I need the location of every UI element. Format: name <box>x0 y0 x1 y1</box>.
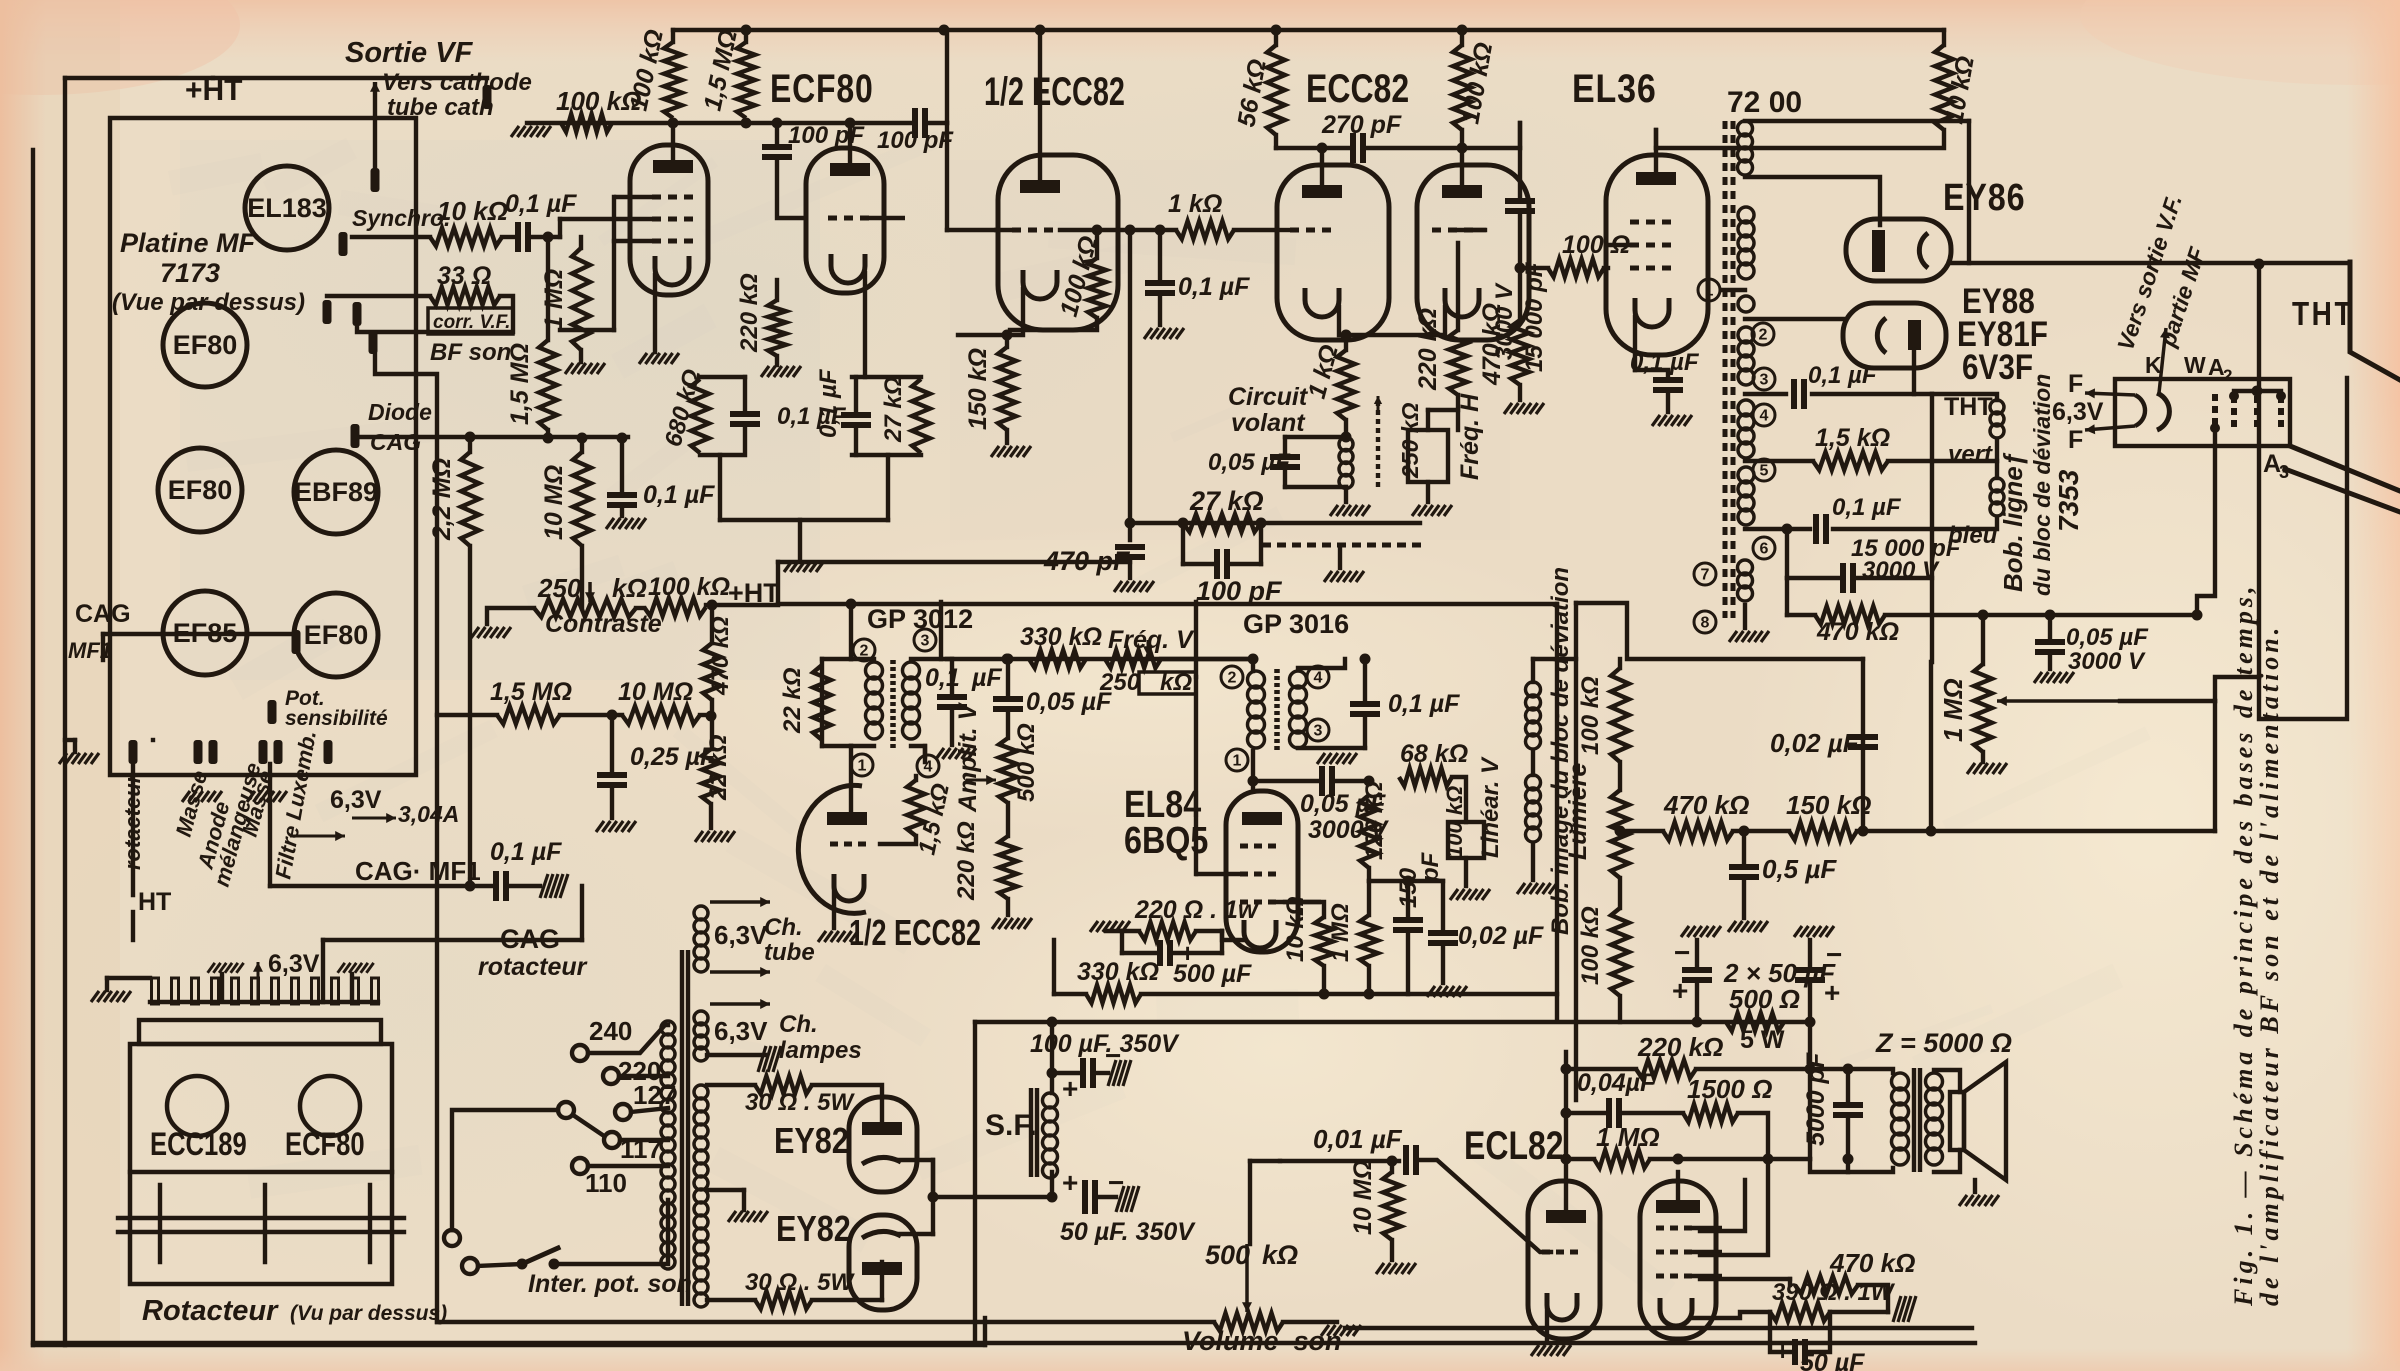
ground 0,5 uF <box>1728 921 1768 932</box>
resistor 1 MOhm pot <box>1974 664 1992 752</box>
wire shield gnd <box>1338 545 1342 568</box>
tube EF80 (top view) <box>163 303 247 387</box>
label Ch tube b <box>764 939 815 966</box>
label F top <box>2068 370 2083 398</box>
wire row715 right <box>700 713 711 717</box>
svg-text:Z = 5000 Ω: Z = 5000 Ω <box>1875 1028 2012 1058</box>
label 390 Ohm 1W <box>1772 1279 1896 1306</box>
wire 470k stub <box>1518 268 1522 320</box>
wire 025 stub <box>610 715 614 770</box>
wire yoke mid <box>1932 441 1997 461</box>
label 220 Ohm 1W <box>1134 896 1259 924</box>
wire el84 rail b <box>1141 992 1430 996</box>
tube ECL82 pentode envelope <box>1640 1181 1716 1339</box>
electrode W crt <box>2212 394 2218 428</box>
wire 220k bot <box>775 356 779 365</box>
resistor 1,5 MOhm anode <box>737 42 755 118</box>
terminal 110 <box>572 1158 588 1174</box>
resistor 100 kOhm anode <box>664 42 682 118</box>
capacitor 0,05 uF 3000V <box>2035 642 2065 652</box>
resistor 220 Ohm 1W <box>1139 922 1196 940</box>
junction +HT mid <box>707 600 718 611</box>
tap 7 <box>1694 563 1716 585</box>
box rotacteur <box>130 1044 392 1284</box>
wire 865-447 <box>886 455 890 520</box>
wire 1MOhm bot <box>579 350 583 362</box>
junction 0,1uF grid <box>1155 225 1166 236</box>
wire otr prim bot <box>1810 1159 1893 1172</box>
junction 0,05 3000 <box>2045 610 2056 621</box>
wire 0,1uF grid bot <box>1158 298 1162 325</box>
ground rot left <box>208 963 244 973</box>
wire +HT rail <box>712 603 778 607</box>
wire 0,05 stub <box>2048 615 2052 637</box>
label Lumiere <box>1564 763 1592 860</box>
svg-text:250 kΩ: 250 kΩ <box>1397 402 1423 479</box>
wire ecl pent cath <box>1691 1310 1693 1318</box>
label 2,2 MOhm <box>428 458 456 541</box>
wire row715 left <box>437 713 497 717</box>
svg-text:10 kΩ: 10 kΩ <box>437 196 508 226</box>
wire y659 cont <box>946 580 948 659</box>
label Contraste <box>545 610 662 638</box>
wire gp3016 right border <box>1555 604 1559 1021</box>
resistor 680 kOhm <box>691 379 709 453</box>
pin rotacteur 5 <box>232 978 239 1004</box>
svg-text:6,3V: 6,3V <box>330 786 382 814</box>
resistor 100 kOhm ecc82 <box>1453 45 1471 130</box>
junction 470/22 <box>706 711 717 722</box>
label 1/2 ECC82 <box>984 69 1125 114</box>
label CAG small <box>370 429 421 455</box>
grid EL84 g2 <box>1240 844 1276 849</box>
wire 470k stub top <box>710 605 714 643</box>
winding THT secondary s5 <box>1738 467 1754 525</box>
wire synchro <box>352 235 430 239</box>
svg-text:470 kΩ: 470 kΩ <box>707 616 734 696</box>
wire 100pF fb r <box>1227 562 1261 566</box>
wire el84 rail right <box>1430 992 1557 996</box>
svg-text:2,2 MΩ: 2,2 MΩ <box>428 458 456 541</box>
label 330 kOhm el84 <box>1077 958 1159 986</box>
svg-text:0,1 µF: 0,1 µF <box>1178 273 1250 301</box>
wire gp3016 sec top <box>1298 659 1345 668</box>
wire 2x50a bot <box>1695 985 1699 1022</box>
junction g1 ecl <box>1673 1154 1684 1165</box>
label Amplit V <box>954 701 982 813</box>
wire 100k to HT <box>706 603 713 607</box>
socket shelf rotacteur <box>139 1020 381 1044</box>
svg-text:250: 250 <box>537 573 582 603</box>
wire audio long <box>1250 1159 1280 1163</box>
ground THT tertiary <box>1729 631 1769 642</box>
wire gp3012 672 <box>849 602 853 659</box>
wire cath join <box>720 518 888 522</box>
junction bus 100k ecc82 <box>1457 25 1468 36</box>
wire B+ rail <box>975 1020 1810 1024</box>
label volant <box>1231 409 1306 437</box>
hatch cag mf1 <box>540 874 568 898</box>
svg-text:−: − <box>1674 937 1690 968</box>
crt gun base box <box>2115 379 2290 446</box>
wire el36 cap bot <box>1666 395 1670 412</box>
box 500uF b <box>1220 931 1224 953</box>
pin rotacteur 10 <box>332 978 339 1004</box>
wire 10M top <box>580 437 584 452</box>
anode ECL82 triode <box>1546 1210 1586 1223</box>
wire corr vf left <box>327 294 430 298</box>
wire 500uF l <box>1122 951 1160 955</box>
svg-text:ECF80: ECF80 <box>285 1127 365 1162</box>
junction gp3016 feed <box>1248 654 1259 665</box>
junction B+ SF <box>1047 1017 1058 1028</box>
wire 390 r <box>1830 1310 1888 1314</box>
svg-text:3: 3 <box>1314 723 1323 740</box>
wire cath join down <box>798 520 802 560</box>
wire HT to box <box>131 912 135 940</box>
wire tap4 stub <box>923 746 927 756</box>
svg-text:+: + <box>1062 1167 1078 1198</box>
pin rotacteur 3 <box>192 978 199 1004</box>
terminal 127 <box>615 1104 631 1120</box>
svg-text:0,02 µF: 0,02 µF <box>1458 922 1544 950</box>
winding THT secondary s2 <box>1738 296 1754 312</box>
anode ECC82 A <box>1302 185 1342 198</box>
terminal corr VF b <box>353 302 362 326</box>
label CAG rot <box>500 924 560 954</box>
wire anode lead triode <box>848 123 852 163</box>
svg-text:1 MΩ: 1 MΩ <box>1596 1122 1660 1152</box>
tap 5 <box>1753 459 1775 481</box>
svg-text:0,04µF: 0,04µF <box>1577 1069 1656 1097</box>
svg-text:3: 3 <box>921 633 930 650</box>
label 30 Ohm 5W b <box>745 1269 855 1296</box>
winding THT secondary s3 <box>1738 327 1754 385</box>
wire vol wiper up <box>1248 1161 1252 1244</box>
tap 8 <box>1694 611 1716 633</box>
wire 1M bot <box>1981 752 1985 762</box>
label THT tap <box>1944 393 1993 421</box>
junction 270pF right <box>1457 143 1468 154</box>
label Diode <box>368 399 432 425</box>
label 1/2 ECC82 b <box>849 912 981 953</box>
wire 50uF r <box>1100 1195 1116 1199</box>
ground 220k cath <box>761 366 801 377</box>
label minus 500 <box>1140 938 1155 968</box>
wire rail elbow2 <box>1053 939 1055 941</box>
svg-text:EF80: EF80 <box>168 475 233 505</box>
label 1 MOhm ecl <box>1596 1122 1660 1152</box>
label ECC189 <box>150 1127 247 1162</box>
label 1 kOhm cath <box>1303 342 1344 402</box>
junction 100k/anode <box>668 118 679 129</box>
tube ECL82 triode envelope <box>1528 1181 1600 1339</box>
caption line 1 <box>2229 582 2258 1307</box>
svg-text:W: W <box>2184 352 2206 378</box>
svg-text:6: 6 <box>1760 541 1769 558</box>
junction bus 947 <box>939 25 950 36</box>
resistor 1,5 kOhm gp <box>907 780 925 836</box>
ground shield <box>1324 571 1364 582</box>
wire A2 bridge <box>2234 389 2281 393</box>
junction 0,5uF <box>1739 826 1750 837</box>
wire 15000 top2 <box>1518 123 1522 148</box>
svg-text:50 µF. 350V: 50 µF. 350V <box>1060 1218 1196 1246</box>
anode EY88 <box>1908 320 1921 350</box>
label 10 MOhm vert <box>540 465 568 540</box>
cathode ECL82 triode <box>1547 1293 1577 1320</box>
wire gp box top <box>822 657 851 661</box>
junction 1M ecl <box>1561 1154 1572 1165</box>
svg-text:EY86: EY86 <box>1943 177 2025 219</box>
wire audio in <box>1280 1159 1399 1163</box>
wire synchro 2 <box>502 235 513 239</box>
svg-text:6,3V: 6,3V <box>714 1016 768 1046</box>
svg-text:27 kΩ: 27 kΩ <box>1189 486 1264 516</box>
label Synchro. <box>352 205 450 231</box>
junction 27k l <box>1178 518 1189 529</box>
label A2 sub <box>2223 366 2232 385</box>
svg-text:Contraste: Contraste <box>545 610 662 638</box>
svg-text:THT: THT <box>1944 393 1993 421</box>
wire cath net top <box>700 375 745 379</box>
anode EY82 b <box>862 1262 902 1275</box>
label Vu par dessus <box>290 1302 447 1325</box>
winding output primary <box>1892 1073 1909 1165</box>
junction 27k r <box>1256 518 1267 529</box>
wire el84 gnd <box>1105 918 1107 931</box>
tap GP3012 2 <box>853 639 875 661</box>
wire cath bus <box>931 1160 935 1234</box>
terminal Sortie VF <box>371 168 380 192</box>
label Z=5000 <box>1875 1028 2012 1058</box>
svg-text:1/2 ECC82: 1/2 ECC82 <box>849 912 981 953</box>
junction 150pF <box>1403 876 1414 887</box>
label Masse b <box>237 768 279 839</box>
terminal 63v out <box>324 740 333 764</box>
label Masse a <box>171 768 213 839</box>
wire EY88 line down <box>1930 394 1934 662</box>
wiper freqv <box>1143 640 1153 656</box>
wire tank gnd stub <box>1344 487 1348 502</box>
tube 1/2 ECC82 envelope <box>998 155 1118 330</box>
label 150 kOhm lum <box>1786 790 1871 820</box>
label 0,1 uF gp b <box>971 664 1002 692</box>
svg-text:de l'amplificateur BF son et d: de l'amplificateur BF son et de l'alimen… <box>2255 624 2284 1306</box>
wire 68k l <box>1369 776 1399 778</box>
winding GP3016 secondary <box>1290 671 1307 748</box>
resistor 120 kOhm <box>1360 795 1378 868</box>
label W <box>2184 352 2206 378</box>
wire rot tick a <box>158 1185 162 1262</box>
wire Sortie VF arrow <box>370 82 380 172</box>
label + 50uF <box>1062 1167 1078 1198</box>
svg-text:470 kΩ: 470 kΩ <box>1829 1248 1915 1278</box>
resistor 100 kOhm grid <box>561 114 612 132</box>
svg-text:1,5 MΩ: 1,5 MΩ <box>506 343 534 425</box>
svg-text:3000 V: 3000 V <box>2068 648 2146 675</box>
wire 27k box bot <box>852 453 921 457</box>
resistor 10 MOhm ecl <box>1383 1172 1401 1240</box>
wire g1 ecl <box>1677 1159 1679 1172</box>
svg-text:2: 2 <box>2223 366 2232 385</box>
resistor 390 Ohm 1W <box>1770 1303 1830 1321</box>
label ECF80 <box>770 66 874 111</box>
box GP3012 left <box>820 659 824 746</box>
wire tank bot <box>1285 485 1346 489</box>
wire 0,02 bot <box>1441 948 1445 983</box>
label rotacteur pin <box>120 773 145 870</box>
label +HT mid <box>728 578 780 608</box>
wire ecc82b cath <box>832 886 836 928</box>
wire y562 <box>778 560 1130 564</box>
wire amplit mid <box>1006 803 1010 836</box>
terminal pot sensibilite <box>268 700 277 724</box>
wire el84 g1 riser <box>1194 677 1198 874</box>
junction 1,5M/anode <box>741 118 752 129</box>
wire corr vf box <box>357 296 513 332</box>
wire 270 line left <box>1276 146 1322 150</box>
junction B+ 220k <box>1805 1064 1816 1075</box>
junction sw b <box>549 1259 560 1270</box>
label - 50ecl <box>1815 1336 1830 1366</box>
wire EY86 top feed <box>1967 121 1971 263</box>
anode EL84 <box>1242 812 1282 825</box>
svg-text:330 kΩ: 330 kΩ <box>1077 958 1159 986</box>
junction 15000 stub <box>1782 524 1793 535</box>
tap 2 <box>1752 323 1774 345</box>
capacitor 0,1 uF synchro <box>518 222 528 252</box>
terminal masse a <box>194 740 203 764</box>
label 6,3V chtube <box>714 920 768 950</box>
winding SF <box>1043 1093 1058 1178</box>
label 1,5 kOhm gp <box>913 781 954 857</box>
wire 27k stub t <box>854 377 858 410</box>
wire contraste to 100k <box>636 606 644 610</box>
label 5000 pF <box>1802 1052 1830 1146</box>
resistor 500 Ohm 5W <box>1726 1013 1784 1031</box>
label 250 kOhm freqv b <box>1160 669 1192 696</box>
tap GP3016 2 <box>1221 666 1243 688</box>
svg-text:270 pF: 270 pF <box>1321 111 1402 139</box>
wire 947 down <box>945 123 949 230</box>
resistor 100 kOhm HT <box>644 598 706 616</box>
svg-text:27 kΩ: 27 kΩ <box>880 376 907 443</box>
wire bob image feed <box>1533 657 1576 661</box>
shield dashes <box>1262 543 1425 548</box>
wire 470 bot <box>710 700 714 749</box>
svg-text:corr. V.F.: corr. V.F. <box>433 312 510 333</box>
pin rotacteur 6 <box>252 978 259 1004</box>
wire switch lever <box>522 1248 558 1264</box>
resistor 30 Ohm 5W b <box>755 1291 812 1309</box>
wire 0,02 vert <box>1861 659 1865 831</box>
wire ecl anode lead <box>1564 1052 1568 1210</box>
svg-text:EF80: EF80 <box>304 620 369 650</box>
tap GP3016 1 <box>1226 749 1248 771</box>
wire audio in b <box>1398 1157 1400 1161</box>
label ECF80 rot <box>285 1127 365 1162</box>
label 68 kOhm <box>1400 740 1468 768</box>
wire g1 lead ecl <box>1700 1159 1768 1255</box>
label 220 kOhm eccB <box>1414 308 1442 391</box>
wire tank left b <box>1283 472 1287 487</box>
label 470 kOhm lum <box>1663 790 1749 820</box>
svg-text:30 Ω . 5W: 30 Ω . 5W <box>745 1269 855 1296</box>
wire 250k bot <box>1426 482 1430 502</box>
wire g3-g2 tie <box>612 197 616 241</box>
junction A2 bridge <box>2252 386 2263 397</box>
junction bus 1040 <box>1035 25 1046 36</box>
terminal filtre luxemb <box>274 740 283 764</box>
wire 025 stub2 <box>610 790 614 818</box>
terminal 240 <box>572 1045 588 1061</box>
pin rotacteur 4 <box>212 978 219 1004</box>
wire linear bot <box>1464 858 1468 886</box>
ground anode rail left <box>511 126 551 137</box>
wire +HT top feed <box>213 76 487 80</box>
junction 10M cag <box>577 433 588 444</box>
capacitor 0,04 uF <box>1609 1098 1619 1128</box>
terminal Synchro <box>339 232 348 256</box>
label CAG MF1 <box>355 856 481 886</box>
wire anode lead pentode <box>671 123 675 160</box>
svg-text:1: 1 <box>1705 283 1714 300</box>
resistor 220 kOhm amplit <box>999 836 1017 899</box>
label 6V3F <box>1962 348 2033 387</box>
capacitor 0,25 uF <box>597 775 627 785</box>
wire ecl tri cath <box>1545 1305 1549 1342</box>
svg-text:10 kΩ: 10 kΩ <box>1282 896 1309 962</box>
label THT crt <box>2292 296 2354 333</box>
resistor 1,5 MOhm vert <box>539 340 557 430</box>
svg-text:6,3V: 6,3V <box>714 920 768 950</box>
wire 240 to prim <box>588 1025 668 1053</box>
wire 0,05 stub2 <box>2048 657 2052 669</box>
box 500uF <box>1120 931 1124 953</box>
wire 270pF l <box>1322 146 1353 150</box>
label 56 kOhm <box>1232 57 1271 129</box>
wire sw to prim <box>554 1200 668 1264</box>
svg-text:3,04A: 3,04A <box>398 801 459 827</box>
label 330 kOhm freqv <box>1020 623 1102 651</box>
tube ECC82 triode A envelope <box>1277 165 1389 340</box>
label 220 <box>618 1056 661 1086</box>
wire 0,01 to grid <box>1421 1160 1551 1252</box>
core GP3016 <box>1274 669 1280 751</box>
label + 50ecl <box>1775 1336 1790 1366</box>
label A2 <box>2208 354 2225 380</box>
wire 5000 top <box>1846 1069 1850 1100</box>
ground 2x50a <box>1681 926 1721 937</box>
wire bob image top <box>1531 659 1535 682</box>
label 0,1 uF ecc82 grid <box>1178 273 1250 301</box>
svg-text:ECC82: ECC82 <box>1306 66 1409 111</box>
label 6,3V crt <box>2052 398 2104 426</box>
capacitor 15000 pF <box>1505 201 1535 211</box>
svg-text:1 MΩ: 1 MΩ <box>1938 678 1968 742</box>
wire yoke top <box>1932 394 1997 400</box>
pin rotacteur 11 <box>352 978 359 1004</box>
label 1 kOhm grid <box>1168 190 1222 218</box>
label 15000 pF THT <box>1851 535 1962 562</box>
inductor tank coil <box>1339 437 1353 489</box>
label + 2x50a <box>1672 975 1688 1006</box>
grid ECC82 B <box>1432 228 1486 233</box>
wire triode cath down <box>863 273 867 377</box>
label 0,02 uF <box>1770 728 1860 758</box>
label vert <box>1948 441 1993 468</box>
